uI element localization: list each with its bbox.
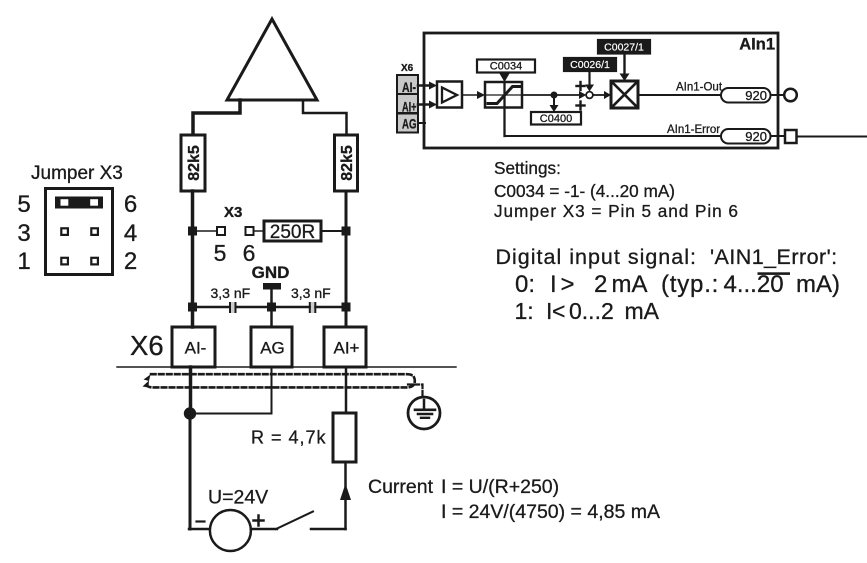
label Jumper X3 bbox=[31, 163, 123, 184]
label digital input heading bbox=[496, 245, 838, 269]
wire right resistor to rail bbox=[345, 191, 348, 307]
wire limiter axis feedback bbox=[503, 82, 505, 136]
limiter through line bbox=[485, 94, 522, 96]
wire left resistor to rail bbox=[191, 191, 195, 307]
svg-text:6: 6 bbox=[124, 191, 137, 218]
svg-text:0:I>2mA(typ.:4...20mA): 0:I>2mA(typ.:4...20mA) bbox=[515, 271, 840, 298]
signal stadium error 920 bbox=[721, 129, 771, 144]
parameter box C0027/1 bbox=[598, 40, 650, 54]
label AIn1-Out bbox=[676, 82, 723, 94]
wire 250R to right node bbox=[321, 230, 346, 232]
svg-text:3,3 nF: 3,3 nF bbox=[291, 285, 331, 301]
limiter block bbox=[485, 82, 522, 108]
label settings line 3 bbox=[494, 201, 739, 221]
wire error rail bbox=[505, 135, 722, 137]
parameter box C0400 bbox=[531, 112, 581, 125]
svg-text:Current: Current bbox=[368, 476, 434, 498]
wire source to switch bbox=[251, 528, 277, 531]
resistor R 4,7k bbox=[333, 413, 356, 462]
jumper pin 4 bbox=[91, 228, 98, 235]
label X6 small bbox=[401, 63, 414, 74]
jumper bridge pins 5-6 bbox=[55, 197, 103, 209]
supply triangle bbox=[227, 19, 317, 100]
jumper pin 6 bbox=[246, 227, 254, 235]
node after limiter bbox=[551, 92, 558, 99]
connector X6 AG bbox=[397, 114, 418, 133]
wire AI+ down to R bbox=[345, 367, 348, 413]
wire node to AG branch bbox=[190, 413, 272, 415]
wire AI- down bbox=[189, 367, 193, 414]
label jumper 3 bbox=[17, 220, 30, 247]
wire limiter to node bbox=[522, 94, 554, 96]
label AIn1-Error bbox=[667, 124, 720, 136]
label current formula line 1 bbox=[368, 476, 559, 498]
wire AI- to amp bbox=[418, 82, 437, 90]
label GND bbox=[252, 263, 290, 282]
svg-text:250R: 250R bbox=[270, 222, 315, 243]
label jumper 5 bbox=[17, 191, 30, 218]
junction node bbox=[184, 407, 196, 419]
label settings line 2 bbox=[494, 181, 675, 201]
svg-text:3: 3 bbox=[17, 220, 30, 247]
node rail right bbox=[342, 303, 351, 312]
label plus bbox=[254, 516, 264, 526]
wire triangle right leg bbox=[303, 100, 347, 135]
terminal AG bbox=[251, 327, 292, 367]
svg-text:1: 1 bbox=[17, 248, 30, 275]
svg-text:U=24V: U=24V bbox=[208, 487, 268, 509]
svg-text:R = 4,7k: R = 4,7k bbox=[251, 428, 327, 448]
label X6 bbox=[130, 330, 164, 361]
connector X6 AI- bbox=[397, 75, 418, 95]
label digital input line 1 bbox=[515, 298, 660, 324]
wire error out bbox=[797, 136, 867, 138]
svg-text:I = 24V/(4750) = 4,85 mA: I = 24V/(4750) = 4,85 mA bbox=[441, 501, 660, 523]
wire R bottom bbox=[344, 462, 347, 486]
label jumper 1 bbox=[17, 248, 30, 275]
wire pin 6 to 250R bbox=[254, 230, 265, 232]
svg-text:Jumper X3: Jumper X3 bbox=[31, 163, 123, 184]
wire rail to AG bbox=[270, 307, 273, 327]
svg-text:AI+: AI+ bbox=[334, 339, 360, 358]
label plus lower bbox=[577, 102, 585, 110]
arrow node to C0400 bbox=[550, 95, 559, 112]
svg-text:1:I<0...2mA: 1:I<0...2mA bbox=[515, 298, 660, 324]
arrow C0034 to limiter bbox=[500, 73, 510, 83]
wire amp to limiter bbox=[462, 91, 485, 99]
parameter box C0034 bbox=[477, 60, 535, 73]
terminal AI+ bbox=[324, 327, 366, 367]
svg-text:5: 5 bbox=[17, 191, 30, 218]
label plus upper bbox=[577, 82, 585, 90]
label digital input line 0 bbox=[515, 271, 840, 298]
svg-text:AI-: AI- bbox=[185, 339, 207, 358]
wire node to pin 5 bbox=[197, 230, 217, 232]
svg-text:Jumper X3 = Pin 5 and Pin 6: Jumper X3 = Pin 5 and Pin 6 bbox=[494, 201, 739, 221]
connector X6 AI+ bbox=[397, 94, 418, 115]
wire source left bbox=[189, 414, 210, 530]
svg-text:5: 5 bbox=[214, 240, 227, 266]
svg-text:AIn1-Error: AIn1-Error bbox=[667, 124, 720, 136]
resistor R left 82k5 bbox=[181, 135, 205, 191]
node rail left bbox=[188, 303, 197, 312]
resistor R right 82k5 bbox=[335, 135, 358, 191]
svg-text:C0026/1: C0026/1 bbox=[570, 59, 610, 71]
svg-text:C0034: C0034 bbox=[490, 61, 522, 73]
label AIn1 bbox=[739, 36, 775, 54]
label jumper 4 bbox=[124, 220, 137, 247]
capacitor C2 3,3nF bbox=[291, 285, 331, 313]
cable shield bbox=[143, 374, 415, 387]
svg-text:82k5: 82k5 bbox=[186, 145, 203, 181]
wire rail to AI- bbox=[191, 307, 195, 327]
resistor 250R bbox=[264, 221, 321, 243]
svg-text:AIn1-Out: AIn1-Out bbox=[676, 82, 723, 94]
ground bar GND bbox=[263, 283, 281, 307]
capacitor rail bbox=[193, 306, 347, 309]
node rail center bbox=[267, 303, 276, 312]
jumper pin 1 bbox=[61, 258, 68, 265]
jumper pin 5 bbox=[217, 227, 225, 235]
wire AG stub bbox=[418, 122, 425, 124]
svg-text:2: 2 bbox=[124, 248, 137, 275]
svg-text:920: 920 bbox=[745, 88, 767, 103]
multiplier block bbox=[611, 81, 638, 108]
parameter box C0026/1 bbox=[564, 58, 616, 71]
svg-text:I = U/(R+250): I = U/(R+250) bbox=[441, 476, 559, 498]
current arrow bbox=[340, 484, 351, 530]
label pin 5 bbox=[214, 240, 227, 266]
svg-text:Digital input signal:'AIN1_Err: Digital input signal:'AIN1_Error': bbox=[496, 245, 838, 269]
label minus bbox=[197, 520, 205, 522]
shield earth connector bbox=[408, 385, 423, 397]
arrow C0027/1 to multiplier bbox=[620, 54, 630, 82]
svg-text:AG: AG bbox=[260, 339, 285, 358]
capacitor C1 3,3nF bbox=[211, 285, 251, 313]
label X3 bbox=[224, 204, 242, 221]
node X3 right bbox=[342, 227, 351, 236]
svg-text:AI-: AI- bbox=[402, 80, 416, 95]
svg-text:C0400: C0400 bbox=[540, 113, 572, 125]
svg-text:X6: X6 bbox=[401, 63, 414, 74]
voltage source U=24V bbox=[210, 510, 251, 551]
wire triangle left leg bbox=[193, 100, 240, 135]
jumper block outline bbox=[46, 189, 113, 275]
wire rail to AI+ bbox=[345, 307, 348, 327]
arrow C0026/1 to summing bbox=[585, 71, 594, 92]
switch bbox=[276, 512, 346, 530]
amplifier U1 bbox=[437, 82, 462, 108]
svg-text:X6: X6 bbox=[130, 330, 164, 361]
signal stadium out 920 bbox=[721, 88, 771, 103]
svg-text:3,3 nF: 3,3 nF bbox=[211, 285, 251, 301]
wire AG down bbox=[271, 367, 273, 414]
terminal circle out bbox=[784, 89, 797, 102]
wire AI+ to amp bbox=[418, 101, 437, 109]
label U=24V bbox=[208, 487, 268, 509]
svg-text:920: 920 bbox=[745, 129, 767, 144]
svg-text:C0027/1: C0027/1 bbox=[604, 42, 644, 54]
svg-text:AIn1: AIn1 bbox=[739, 36, 775, 54]
svg-text:GND: GND bbox=[252, 263, 290, 282]
svg-text:4: 4 bbox=[124, 220, 137, 247]
label jumper 6 bbox=[124, 191, 137, 218]
protective earth symbol bbox=[408, 397, 440, 429]
jumper pin 3 bbox=[61, 228, 68, 235]
label current formula line 2 bbox=[441, 501, 660, 523]
wire stadium to box edge error bbox=[771, 135, 786, 137]
wire stadium to box edge bbox=[771, 94, 785, 96]
label settings line 1 bbox=[494, 158, 561, 178]
svg-text:AG: AG bbox=[402, 117, 417, 132]
wire multiplier to stadium bbox=[638, 94, 721, 96]
svg-text:82k5: 82k5 bbox=[339, 145, 356, 181]
wire node to summing bbox=[554, 91, 586, 99]
label R = 4,7k bbox=[251, 428, 327, 448]
summing node bbox=[586, 92, 593, 99]
svg-text:C0034 = -1- (4...20 mA): C0034 = -1- (4...20 mA) bbox=[494, 181, 675, 201]
function block AIn1 box bbox=[424, 33, 778, 148]
svg-text:Settings:: Settings: bbox=[494, 158, 561, 178]
terminal AI- bbox=[172, 327, 215, 367]
label pin 6 bbox=[243, 240, 256, 266]
node X3 left bbox=[188, 227, 197, 236]
jumper pin 2 bbox=[91, 258, 98, 265]
svg-text:AI+: AI+ bbox=[402, 100, 417, 115]
panel line bbox=[117, 366, 456, 368]
wire summing to multiplier bbox=[593, 91, 611, 99]
label jumper 2 bbox=[124, 248, 137, 275]
limiter curve bbox=[488, 87, 520, 104]
terminal square error bbox=[785, 130, 797, 143]
svg-text:X3: X3 bbox=[224, 204, 242, 221]
